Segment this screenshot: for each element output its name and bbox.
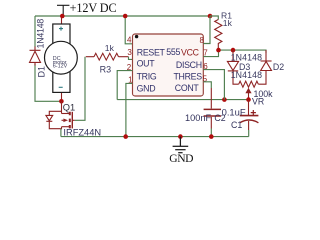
node r1-disch <box>216 48 221 53</box>
svg-text:6-12V: 6-12V <box>53 64 68 70</box>
wire disch node run <box>219 50 267 53</box>
wire THRES pin6 <box>203 70 224 100</box>
node c2-rail <box>209 134 214 139</box>
svg-text:4: 4 <box>127 36 132 45</box>
motor M1 pins <box>61 16 63 101</box>
diode D3 <box>227 50 238 84</box>
power flag +12V <box>57 5 69 16</box>
wire source to ground rail <box>60 129 62 137</box>
transistor Q1 <box>46 111 75 128</box>
node gnd-symbol <box>178 134 183 139</box>
ground <box>173 137 189 153</box>
svg-text:1N4148: 1N4148 <box>231 70 262 80</box>
node gnd-pin1 <box>123 134 128 139</box>
svg-text:1k: 1k <box>223 18 233 28</box>
node rail-power <box>60 14 65 19</box>
node d3-top <box>231 48 236 53</box>
svg-text:OUT: OUT <box>137 59 156 69</box>
wire D1 top <box>34 16 36 47</box>
C1 plus mark <box>251 110 256 115</box>
node wiper-bottom <box>246 97 251 102</box>
node thres-bottom <box>222 97 227 102</box>
svg-text:VCC: VCC <box>181 47 200 57</box>
Q1 arrow <box>63 119 68 123</box>
wire GND pin1 <box>126 83 133 136</box>
svg-text:1N4148: 1N4148 <box>35 19 45 49</box>
VR wiper arrow <box>248 93 250 100</box>
svg-text:CONT: CONT <box>175 83 200 93</box>
wire rail to RESET pin4 <box>125 16 132 44</box>
resistor R1 <box>215 20 222 51</box>
wire gate to R3 <box>75 57 85 121</box>
svg-text:DISCH: DISCH <box>176 60 202 70</box>
wire VCC pin8 <box>203 16 210 44</box>
capacitor C2 <box>204 88 221 129</box>
wire TRIG pin2 <box>117 71 132 100</box>
svg-text:TRIG: TRIG <box>137 71 157 81</box>
node rail-reset <box>123 14 128 19</box>
wire CONT pin5 to C2 <box>203 82 211 88</box>
wire top rail <box>35 15 210 17</box>
svg-text:1k: 1k <box>105 43 115 53</box>
svg-text:THRES: THRES <box>173 72 202 82</box>
svg-text:C1: C1 <box>231 120 242 130</box>
diode D1 <box>30 47 41 66</box>
svg-text:D2: D2 <box>273 62 284 72</box>
capacitor C1 <box>240 100 259 130</box>
wire DISCH pin7 <box>203 50 218 57</box>
node rail-vcc <box>208 14 213 19</box>
svg-text:100nF: 100nF <box>185 113 211 123</box>
diode D2 <box>258 50 271 84</box>
svg-text:GND: GND <box>169 152 193 164</box>
motor plus mark <box>59 27 63 31</box>
svg-text:R3: R3 <box>100 65 112 75</box>
motor M1 body <box>45 24 78 92</box>
svg-text:3: 3 <box>127 48 132 57</box>
wire C1 to rail <box>248 130 250 137</box>
resistor R3 <box>86 53 129 60</box>
svg-text:Q1: Q1 <box>63 103 75 113</box>
node motor/drain junction <box>59 99 64 104</box>
svg-text:GND: GND <box>137 83 156 93</box>
svg-text:VR: VR <box>252 96 264 106</box>
wire D1 bottom to motor node <box>35 64 61 101</box>
svg-text:+12V DC: +12V DC <box>70 1 117 15</box>
op-amp U1 555 box <box>133 34 204 96</box>
wire R3 to OUT <box>129 57 133 60</box>
svg-text:D1: D1 <box>36 66 46 78</box>
potentiometer VR <box>239 81 259 87</box>
wire C2 to rail <box>210 129 212 137</box>
wire trig bottom run <box>117 99 248 101</box>
wire drain <box>61 101 63 113</box>
svg-text:555: 555 <box>166 47 180 57</box>
svg-text:RESET: RESET <box>137 47 166 57</box>
svg-text:0.1uF: 0.1uF <box>222 106 246 117</box>
wire rail to R1 <box>210 16 218 20</box>
555 pin1 dot <box>135 35 138 38</box>
wire ground rail <box>61 136 249 138</box>
motor minus mark <box>59 86 63 88</box>
